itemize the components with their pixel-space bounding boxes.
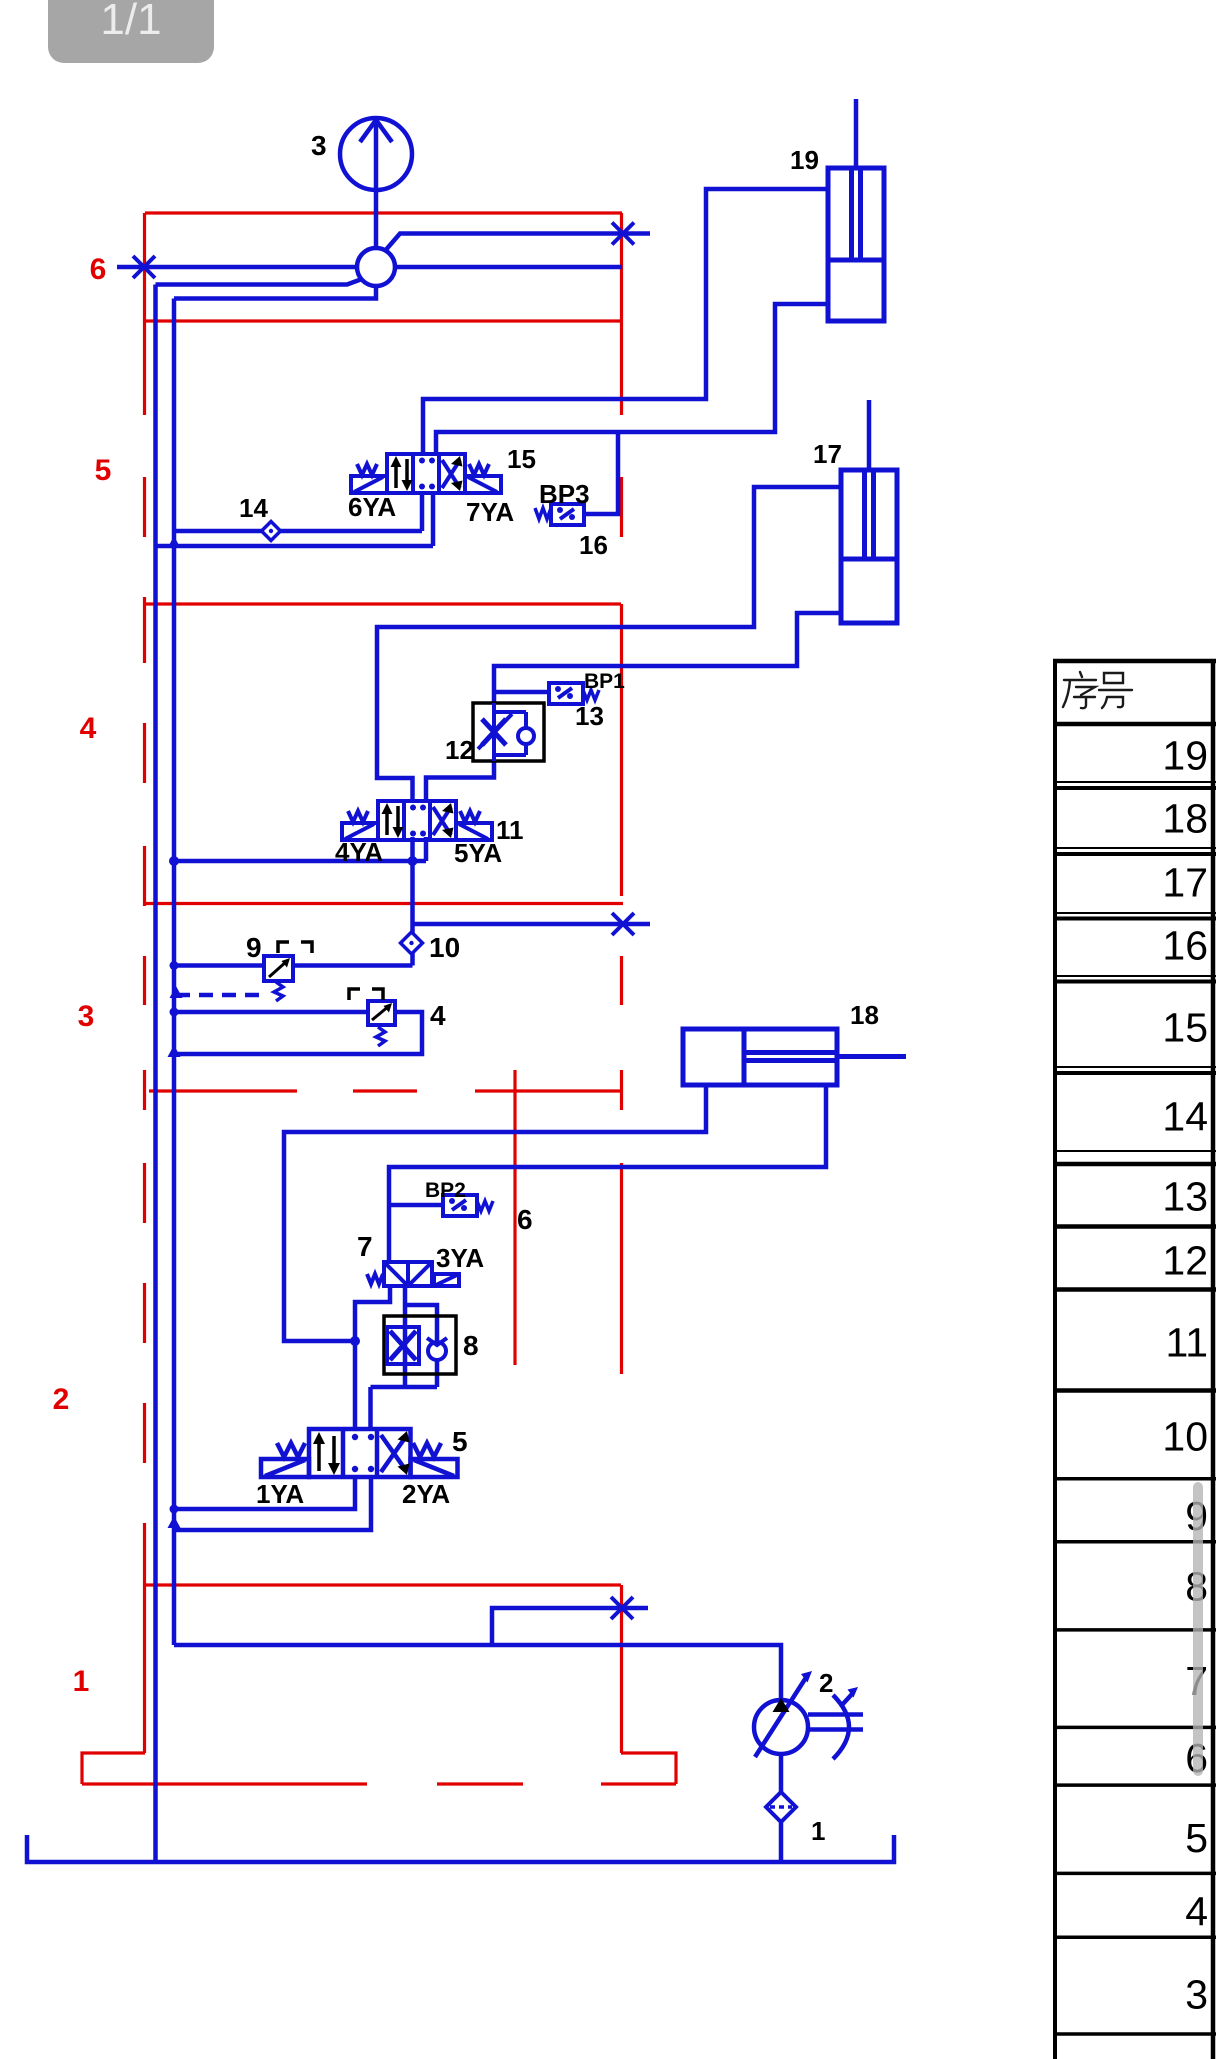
zone 2 middle red vertical <box>513 1070 516 1365</box>
zone 1 dashed bottom horizontal <box>82 1782 676 1785</box>
wire: valve 7 left outlet to valve 5 port A <box>355 1286 390 1429</box>
svg-text:BP3: BP3 <box>539 479 590 509</box>
wire: tank line <box>27 1835 894 1862</box>
wire: vertical through check valve 10 <box>410 861 415 966</box>
svg-text:9: 9 <box>246 932 262 963</box>
wire: gauge 3 stem into junction circle <box>374 119 379 248</box>
svg-text:6YA: 6YA <box>348 492 396 522</box>
svg-text:4: 4 <box>1185 1889 1208 1935</box>
svg-text:16: 16 <box>579 530 608 560</box>
svg-text:2YA: 2YA <box>402 1479 450 1509</box>
table row line 4 <box>1053 1935 1216 1939</box>
wire: plugged branch zone 1 <box>492 1608 648 1645</box>
zone 6/5 boundary horizontal <box>145 319 622 322</box>
svg-text:3: 3 <box>78 1000 95 1033</box>
svg-text:5: 5 <box>452 1426 468 1457</box>
svg-text:3: 3 <box>311 130 327 161</box>
junction dots <box>168 536 418 1528</box>
svg-text:19: 19 <box>790 145 819 175</box>
zone 2/1 boundary horizontal <box>145 1583 621 1586</box>
wire: valve 5 port T to L2 <box>174 1477 371 1530</box>
svg-text:8: 8 <box>463 1330 479 1361</box>
node: valve5 feed junction <box>350 1336 360 1346</box>
node: L2 zone4 junction <box>169 856 179 866</box>
cylinder 17 <box>841 470 897 623</box>
flow arrow on L2 at tank line zone5 <box>168 536 181 548</box>
node: L2 relief 4 junction <box>170 1008 179 1017</box>
svg-text:13: 13 <box>1162 1174 1208 1220</box>
node: L2 valve5 P junction <box>170 1505 179 1514</box>
wire: filter 1 to tank <box>779 1822 784 1862</box>
table row line 15 thick <box>1053 1071 1216 1075</box>
svg-text:4: 4 <box>80 712 97 745</box>
wire: junction circle upper-right plugged branch <box>384 234 650 253</box>
table row line header <box>1053 722 1216 727</box>
table row line 11 <box>1053 1388 1216 1393</box>
wire: L2 to relief valve 4 <box>174 1010 368 1015</box>
svg-text:12: 12 <box>445 735 474 765</box>
svg-text:17: 17 <box>1162 860 1208 906</box>
wire: tank return line to L1 <box>156 544 434 549</box>
svg-text:6: 6 <box>90 253 107 286</box>
svg-text:5YA: 5YA <box>454 838 502 868</box>
svg-text:BP1: BP1 <box>584 670 625 693</box>
node: valve11 P junction <box>408 856 418 866</box>
junction circle node <box>357 248 395 286</box>
svg-text:2: 2 <box>819 1668 833 1698</box>
flow control valve 8 with check <box>384 1316 456 1374</box>
wire: valve 7 right outlet through flow valve 8 <box>403 1286 408 1387</box>
check valve 14 <box>262 522 281 541</box>
scrollbar <box>1193 1482 1203 1776</box>
wire: valve 5 port P to L2 <box>174 1477 355 1509</box>
plug X at zone6 right <box>612 223 634 245</box>
wire: pump 2 to filter 1 <box>779 1754 784 1792</box>
table row line 13 <box>1053 1224 1216 1229</box>
wire: flow valve 12 bottom to valve 11 port B <box>426 761 494 801</box>
zone 5/4 boundary horizontal <box>146 602 621 605</box>
check valve 10 <box>401 932 423 954</box>
table row line 14 thin <box>1053 1150 1216 1152</box>
svg-text:15: 15 <box>507 444 536 474</box>
svg-text:17: 17 <box>813 439 842 469</box>
wire: branch to pressure switch 6 BP2 <box>389 1203 443 1208</box>
svg-text:12: 12 <box>1162 1238 1208 1284</box>
svg-text:4YA: 4YA <box>335 837 383 867</box>
svg-text:10: 10 <box>1162 1414 1208 1460</box>
svg-text:13: 13 <box>575 701 604 731</box>
filter 1 <box>766 1792 796 1822</box>
table row line 18 thick <box>1053 852 1216 856</box>
svg-text:4: 4 <box>430 1000 446 1031</box>
table row line 16 thick <box>1053 980 1216 984</box>
wire: line with check valve 14 from L2 <box>174 529 422 534</box>
table row line 10 <box>1053 1477 1216 1481</box>
plug X at zone6 left <box>133 256 155 278</box>
zone border left vertical <box>143 213 146 1753</box>
zone 1 bottom-right red step <box>621 1753 676 1784</box>
zone 4/3 boundary horizontal <box>145 902 623 905</box>
svg-text:18: 18 <box>1162 796 1208 842</box>
table row line 12 <box>1053 1287 1216 1292</box>
pressure switch 6 BP2 <box>443 1195 493 1216</box>
wire: valve 11 port T down <box>424 837 429 861</box>
svg-text:1: 1 <box>73 1665 90 1698</box>
table row line 9 <box>1053 1540 1216 1544</box>
node: L2 relief 9 junction <box>170 961 179 970</box>
table row line 17 thin <box>1053 912 1216 914</box>
wire: cylinder 17 rod end to valve 11 port A <box>377 487 841 801</box>
svg-text:10: 10 <box>429 932 460 963</box>
table left border <box>1053 659 1057 2059</box>
flow control valve 12 with check <box>473 703 544 761</box>
svg-text:6: 6 <box>517 1204 533 1235</box>
wire: dashed pilot line of valve 9 <box>176 993 262 998</box>
zone boundary top horizontal <box>145 211 622 214</box>
plug X at zone1 <box>611 1597 633 1619</box>
relief valve 4 <box>349 989 395 1046</box>
table row line 16 thin <box>1053 975 1216 977</box>
table row line 3 <box>1053 2032 1216 2036</box>
wire: plugged branch zone 3 <box>413 922 651 927</box>
flow arrow on L2 zone3 return <box>168 1045 181 1057</box>
svg-text:11: 11 <box>1165 1320 1208 1366</box>
wire: cylinder 17 piston end to flow valve 12 top <box>494 613 841 703</box>
table row line 6 <box>1053 1783 1216 1787</box>
variable pump 2 <box>754 1671 863 1759</box>
wire: main vertical line L2 <box>172 299 177 1646</box>
table row line 5 <box>1053 1872 1216 1876</box>
cylinder 18 <box>683 1029 906 1085</box>
relief valve 9 <box>264 942 312 1001</box>
wire: valve 15 port A to cylinder 19 rod end <box>423 189 828 454</box>
zone 1 bottom-left red step <box>82 1753 145 1784</box>
wire: main vertical line L1 <box>153 285 158 1863</box>
wire: line through relief valve 9 <box>174 963 413 968</box>
svg-text:18: 18 <box>850 1000 879 1030</box>
pressure gauge 3 <box>340 118 412 190</box>
wire: valve 11 port P down <box>410 837 415 861</box>
wire: check branch of flow valve 8 <box>405 1305 437 1387</box>
wire: junction circle to right zone border <box>395 265 622 270</box>
zone 3/2 dashed boundary horizontal <box>149 1089 622 1092</box>
svg-text:BP2: BP2 <box>425 1179 466 1202</box>
table row line 15 thin <box>1053 1066 1216 1068</box>
wire: junction circle bottom to vertical main L2 <box>174 286 376 299</box>
wire: cylinder 17 rod <box>867 400 872 470</box>
table row line 14 thick <box>1053 1162 1216 1167</box>
table top border <box>1053 659 1216 664</box>
flow arrow on L2 zone2 return <box>168 1516 181 1528</box>
wire: valve 15 port P down <box>420 493 425 531</box>
solenoid valve 7 (3YA) <box>367 1262 459 1286</box>
svg-text:1: 1 <box>811 1816 825 1846</box>
directional valve 11 (4YA/5YA) <box>342 801 492 840</box>
wire: flow valve 8 outlet to valve 5 port B <box>371 1387 438 1429</box>
cylinder 19 <box>828 168 884 321</box>
wire: valve 15 port B to cylinder 19 piston end <box>436 304 828 454</box>
wire: valve 15 port T down <box>431 493 436 546</box>
svg-text:16: 16 <box>1162 923 1208 969</box>
wire: plugged line left of junction circle, net P <box>117 265 357 270</box>
flow arrow at pilot line zone3 <box>170 986 183 998</box>
table row line 19 thin <box>1053 781 1216 783</box>
table row line 18 thin <box>1053 847 1216 849</box>
table row line 19 thick <box>1053 786 1216 790</box>
svg-text:14: 14 <box>1162 1094 1208 1140</box>
svg-text:5: 5 <box>1185 1815 1208 1861</box>
plug X at zone3 <box>612 913 634 935</box>
wire: relief valve 4 outlet loop to L2 <box>174 1012 422 1054</box>
svg-text:7YA: 7YA <box>466 497 514 527</box>
wire: junction circle lower-left to vertical main L1 <box>156 279 363 285</box>
svg-text:3YA: 3YA <box>436 1243 484 1273</box>
zone labels red <box>53 253 112 1698</box>
svg-text:1/1: 1/1 <box>100 0 161 44</box>
pressure switch 16 BP3 <box>535 504 584 525</box>
svg-text:5: 5 <box>95 454 112 487</box>
table row line 7 <box>1053 1726 1216 1730</box>
table row line 17 thick <box>1053 917 1216 921</box>
svg-text:7: 7 <box>357 1231 373 1262</box>
pressure switch 13 BP1 <box>549 683 599 704</box>
wire: branch to pressure switch 13 BP1 <box>494 690 549 695</box>
svg-text:3: 3 <box>1185 1972 1208 2018</box>
table header text 序号 <box>1063 672 1132 708</box>
directional valve 15 (6YA/7YA) <box>351 454 501 493</box>
wire: cylinder 18 left port to valve 5 <box>284 1085 706 1341</box>
table column divider <box>1211 659 1216 2059</box>
svg-text:1YA: 1YA <box>256 1479 304 1509</box>
wire: pressure line from L2 to valve 11 <box>174 859 426 864</box>
wire: L2 bottom run to pump 2 <box>174 1645 781 1700</box>
wire: cylinder 18 right port to valve 7 <box>389 1085 826 1262</box>
svg-text:15: 15 <box>1162 1005 1208 1051</box>
directional valve 5 (1YA/2YA) <box>261 1429 458 1477</box>
page badge 1/1 <box>48 0 214 63</box>
svg-text:2: 2 <box>53 1383 70 1416</box>
plug symbols (closed ports) <box>133 223 634 1620</box>
zone border right vertical <box>620 213 623 1753</box>
svg-text:14: 14 <box>239 493 268 523</box>
svg-text:19: 19 <box>1162 733 1208 779</box>
wire: cylinder 19 rod <box>854 99 859 168</box>
wire: branch to pressure switch 16 BP3 <box>584 432 618 514</box>
table numbers column <box>1162 733 1208 2018</box>
table row line 8 <box>1053 1628 1216 1632</box>
